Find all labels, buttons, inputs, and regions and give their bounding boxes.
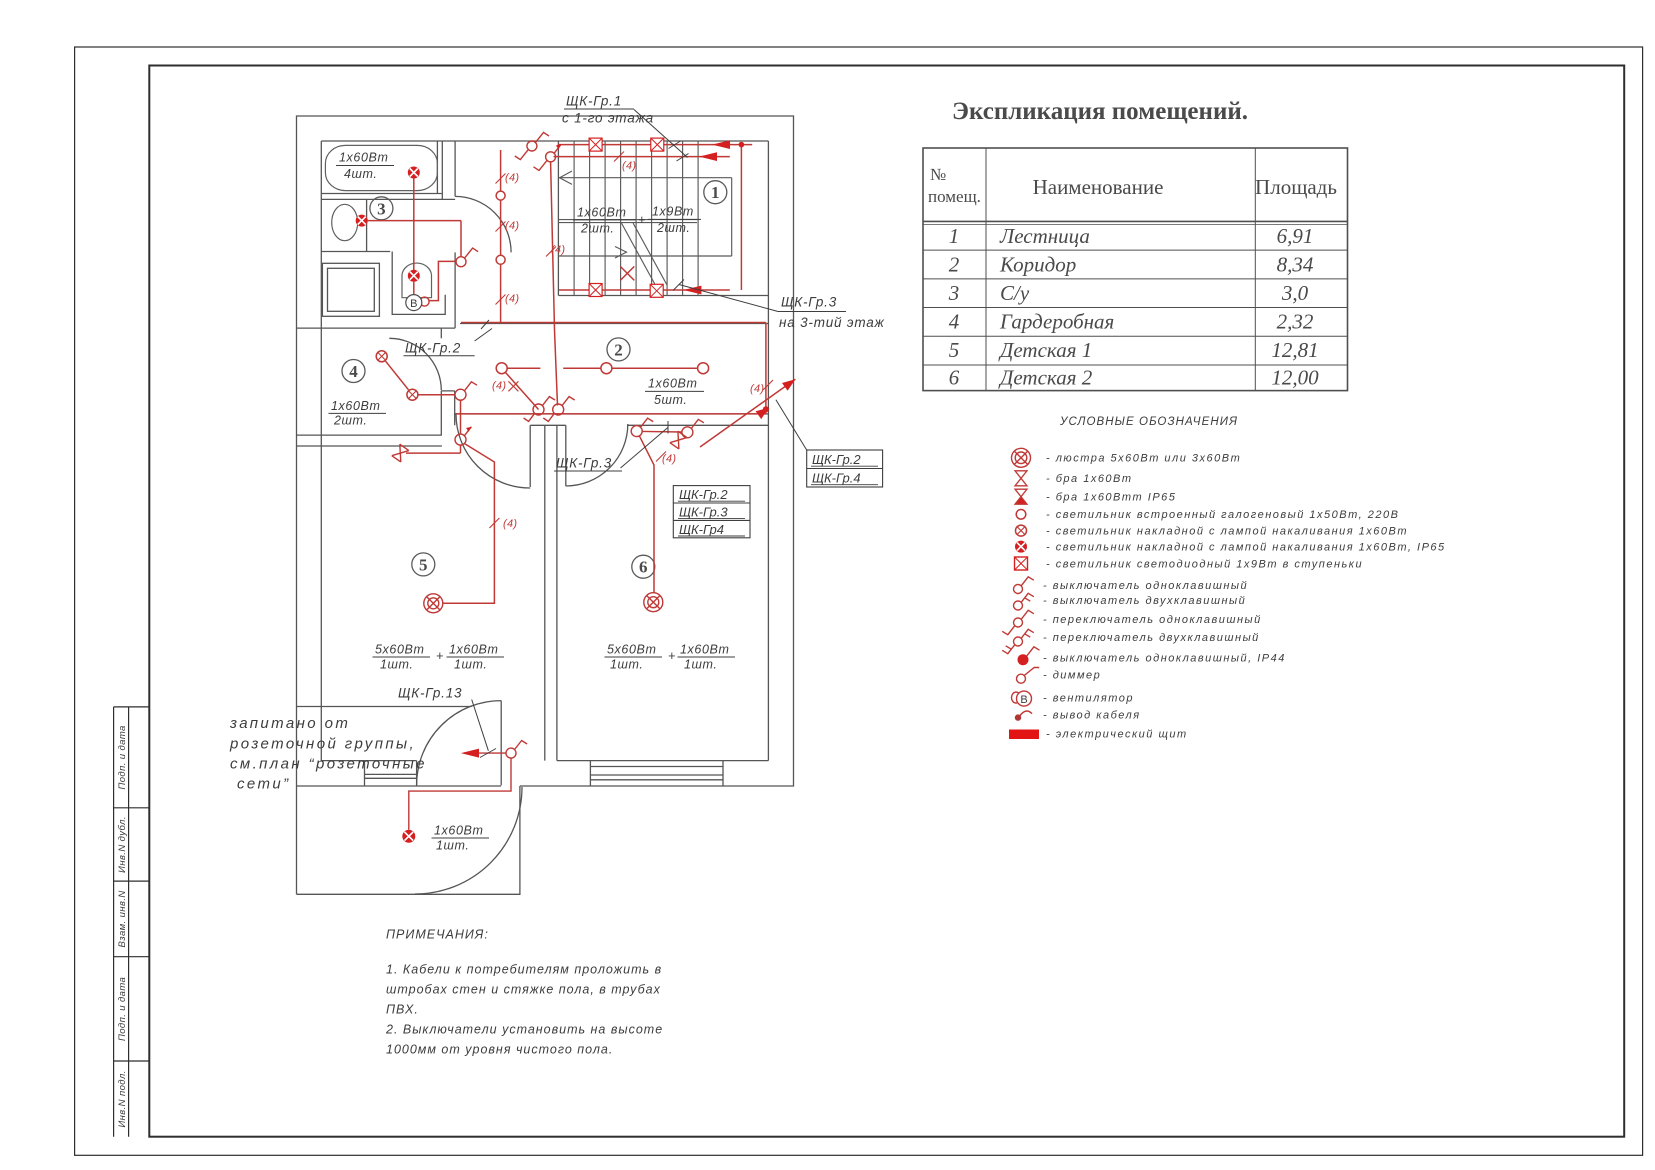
svg-text:Коридор: Коридор xyxy=(999,253,1076,277)
hallway left wall lower xyxy=(454,252,456,328)
stairwell left wall xyxy=(557,141,559,296)
red arrows on feed lines xyxy=(683,140,769,412)
red X on stair xyxy=(620,266,634,280)
svg-text:6: 6 xyxy=(639,558,648,577)
room6 wall sconce xyxy=(670,431,687,449)
svg-text:12,00: 12,00 xyxy=(1271,366,1319,390)
svg-text:- электрический щит: - электрический щит xyxy=(1046,729,1188,741)
wire corridor top xyxy=(461,322,766,324)
svg-text:2: 2 xyxy=(949,253,960,277)
svg-text:- выключатель одноклавишный: - выключатель одноклавишный xyxy=(1043,580,1248,592)
svg-text:+: + xyxy=(436,649,444,663)
svg-text:- выключатель одноклавишный,: - выключатель одноклавишный, IP44 xyxy=(1043,653,1286,665)
svg-text:ЩК-Гр.2: ЩК-Гр.2 xyxy=(812,452,861,467)
svg-text:Гардеробная: Гардеробная xyxy=(999,310,1114,334)
wire corridor bottom xyxy=(455,413,766,415)
fraction underlines xyxy=(329,166,736,839)
svg-text:- вывод кабеля: - вывод кабеля xyxy=(1043,710,1141,722)
bath IP65 lamps xyxy=(356,167,420,282)
svg-text:8,34: 8,34 xyxy=(1277,253,1314,277)
X tick on corridor diagonal xyxy=(508,381,518,391)
title block side strip xyxy=(114,707,150,1137)
svg-text:+: + xyxy=(668,649,676,663)
svg-text:(4): (4) xyxy=(662,453,676,465)
svg-text:розеточной группы,: розеточной группы, xyxy=(229,736,416,753)
svg-text:ПРИМЕЧАНИЯ:: ПРИМЕЧАНИЯ: xyxy=(386,928,489,942)
svg-text:Экспликация помещений.: Экспликация помещений. xyxy=(952,98,1248,125)
halogen downlights hallway xyxy=(496,191,505,264)
svg-text:Наименование: Наименование xyxy=(1033,175,1164,199)
room4 wall sconce xyxy=(392,444,409,462)
svg-text:- светильник накладной с ламп: - светильник накладной с лампой накалива… xyxy=(1046,526,1408,538)
sink oval xyxy=(332,204,358,240)
hall balcony lamp IP65 xyxy=(402,830,415,843)
balcony door leaf xyxy=(500,701,502,786)
svg-text:- вентилятор: - вентилятор xyxy=(1043,693,1134,705)
legend symbol changeover 2-key xyxy=(1002,629,1034,653)
svg-text:4: 4 xyxy=(949,310,960,334)
wc bottom wall xyxy=(321,251,390,253)
svg-text:- выключатель двухклавишный: - выключатель двухклавишный xyxy=(1043,595,1246,607)
svg-text:1х60Вт: 1х60Вт xyxy=(648,377,697,391)
svg-text:помещ.: помещ. xyxy=(928,187,981,206)
legend symbol dimmer xyxy=(1017,668,1040,684)
room4 bottom wall xyxy=(297,434,442,436)
svg-text:5х60Вт: 5х60Вт xyxy=(607,643,656,657)
balcony outline xyxy=(297,786,520,894)
svg-text:(4): (4) xyxy=(505,293,519,305)
svg-text:1х60Вт: 1х60Вт xyxy=(577,206,626,220)
label SCHK-Gr.1 xyxy=(562,94,654,126)
svg-text:(4): (4) xyxy=(505,220,519,232)
corridor top wall xyxy=(460,323,768,325)
svg-text:6,91: 6,91 xyxy=(1277,224,1314,248)
room6 window xyxy=(590,761,723,786)
svg-text:- бра 1х60Втm IP65: - бра 1х60Втm IP65 xyxy=(1046,492,1176,504)
wire stair right riser xyxy=(740,145,742,290)
svg-text:ПВХ.: ПВХ. xyxy=(386,1003,419,1017)
svg-text:с 1-го этажа: с 1-го этажа xyxy=(562,111,654,126)
svg-text:1000мм от уровня чистого пола.: 1000мм от уровня чистого пола. xyxy=(386,1043,613,1057)
svg-text:ЩК-Гр.1: ЩК-Гр.1 xyxy=(566,94,622,109)
wire hallway vertical xyxy=(500,150,502,323)
svg-text:1шт.: 1шт. xyxy=(436,839,469,853)
corridor bottom wall xyxy=(455,413,769,415)
svg-text:1шт.: 1шт. xyxy=(684,658,717,672)
bath circuit wires xyxy=(362,173,461,301)
svg-text:2,32: 2,32 xyxy=(1277,310,1314,334)
(4) wire tags xyxy=(492,160,764,530)
room4 lamps and wires xyxy=(386,361,495,603)
svg-text:1х60Вт: 1х60Вт xyxy=(339,151,388,165)
hallway left wall upper xyxy=(454,141,456,196)
svg-text:Инв.N дубл.: Инв.N дубл. xyxy=(117,816,128,873)
svg-text:1: 1 xyxy=(711,183,720,202)
wire feed run second xyxy=(554,156,730,158)
room6 switches on wall xyxy=(631,418,704,438)
room5 chandelier xyxy=(424,594,443,613)
svg-text:1х60Вт: 1х60Вт xyxy=(449,643,498,657)
red branch ticks xyxy=(489,152,773,529)
svg-text:2шт.: 2шт. xyxy=(333,414,367,428)
stairwell bottom wall xyxy=(558,295,768,297)
notes body xyxy=(385,963,663,1057)
svg-text:Детская 2: Детская 2 xyxy=(998,366,1093,390)
legend symbol surface lamp xyxy=(1016,525,1027,536)
svg-text:5: 5 xyxy=(949,338,960,362)
inner face left wall xyxy=(320,141,322,761)
lamp count labels xyxy=(331,151,729,853)
table header text xyxy=(928,165,1337,206)
svg-text:B: B xyxy=(410,298,417,310)
svg-text:- светильник светодиодный 1х9: - светильник светодиодный 1х9Вт в ступен… xyxy=(1046,559,1363,571)
fed from socket group note xyxy=(229,715,427,793)
svg-text:сети”: сети” xyxy=(237,776,291,793)
red wiring: stair top run 1 xyxy=(455,145,766,414)
bathtub xyxy=(325,145,437,190)
inner face right wall xyxy=(767,141,769,761)
svg-text:4: 4 xyxy=(349,362,358,381)
svg-text:B: B xyxy=(1020,694,1027,706)
legend symbol switch 1-key xyxy=(1014,577,1034,594)
svg-text:Подп. и дата: Подп. и дата xyxy=(117,977,128,1041)
svg-text:1. Кабели к потребителям проло: 1. Кабели к потребителям проложить в xyxy=(386,963,662,977)
svg-text:- светильник встроенный галог: - светильник встроенный галогеновый 1х50… xyxy=(1046,509,1399,521)
room6 bottom wall inner xyxy=(557,760,769,762)
svg-text:Детская 1: Детская 1 xyxy=(998,338,1092,362)
svg-text:2: 2 xyxy=(614,340,623,359)
legend text rows xyxy=(1043,453,1446,741)
wire hallway slant xyxy=(551,162,558,405)
svg-text:2шт.: 2шт. xyxy=(656,221,690,235)
balcony swing arc xyxy=(415,787,522,894)
svg-text:3: 3 xyxy=(948,281,960,305)
legend symbol changeover 1-key xyxy=(1002,610,1034,634)
side strip rotated labels xyxy=(117,725,128,1127)
room5 door arc xyxy=(456,414,530,488)
svg-text:Инв.N подл.: Инв.N подл. xyxy=(117,1070,128,1127)
svg-text:ЩК-Гр.2: ЩК-Гр.2 xyxy=(405,341,461,356)
room number circles xyxy=(342,181,727,579)
svg-text:С/у: С/у xyxy=(1000,281,1030,305)
wire feed run top xyxy=(558,144,753,146)
svg-text:- люстра 5х60Вт или 3х60Вт: - люстра 5х60Вт или 3х60Вт xyxy=(1046,453,1241,465)
balcony door arc small xyxy=(417,701,502,786)
wc switch xyxy=(456,248,478,267)
legend symbol electrical panel xyxy=(1009,730,1039,740)
svg-text:№: № xyxy=(930,165,946,184)
room6 chandelier xyxy=(644,593,663,612)
leader lines black xyxy=(472,110,807,758)
svg-text:ЩК-Гр.3: ЩК-Гр.3 xyxy=(679,504,728,519)
toilet xyxy=(402,263,432,298)
svg-text:штробах стен и стяжке пола, в: штробах стен и стяжке пола, в трубах xyxy=(386,983,661,997)
stair cut diagonals xyxy=(622,223,656,285)
wire corridor right xyxy=(765,323,767,414)
svg-text:(4): (4) xyxy=(505,172,519,184)
svg-text:1х60Вт: 1х60Вт xyxy=(680,643,729,657)
svg-text:- переключатель двухклавишный: - переключатель двухклавишный xyxy=(1043,632,1260,644)
legend symbol surface lamp IP65 xyxy=(1015,541,1027,553)
svg-text:ЩК-Гр.13: ЩК-Гр.13 xyxy=(398,686,462,701)
svg-text:2шт.: 2шт. xyxy=(580,222,614,236)
svg-text:6: 6 xyxy=(949,366,960,390)
legend symbol chandelier xyxy=(1012,448,1031,467)
LED step lights xyxy=(589,138,664,297)
fan xyxy=(406,295,429,311)
stair treads xyxy=(574,141,698,296)
corridor two-way switches xyxy=(524,397,575,422)
legend symbol cable outlet xyxy=(1015,711,1032,721)
svg-text:(4): (4) xyxy=(492,380,506,392)
room4 right wall xyxy=(441,391,454,435)
svg-text:Площадь: Площадь xyxy=(1255,175,1337,199)
svg-text:(4): (4) xyxy=(503,518,517,530)
table rows xyxy=(948,224,1319,390)
room5 door jamb xyxy=(529,425,531,487)
label SCHK-Gr.3 to 3rd floor xyxy=(779,295,885,331)
svg-text:4шт.: 4шт. xyxy=(344,167,377,181)
svg-text:5: 5 xyxy=(419,555,428,574)
floor plan walls xyxy=(297,116,794,894)
cable riser diagonal with arrows xyxy=(700,379,795,447)
storage cabinet box xyxy=(322,263,379,316)
svg-text:3: 3 xyxy=(377,199,386,218)
svg-text:на 3-тий этаж: на 3-тий этаж xyxy=(779,315,885,330)
room6 door arc xyxy=(566,424,628,486)
legend symbol sconce IP65 xyxy=(1015,489,1027,504)
room4 changeover switch xyxy=(455,427,471,445)
room6 door jamb xyxy=(565,425,567,486)
two-way switch 2 at stair top xyxy=(534,144,562,170)
svg-text:запитано от: запитано от xyxy=(229,715,350,732)
svg-text:(4): (4) xyxy=(622,160,636,172)
two-way switch at stair top left xyxy=(515,132,549,159)
hall top wall xyxy=(297,706,472,708)
svg-text:- переключатель одноклавишный: - переключатель одноклавишный xyxy=(1043,614,1262,626)
stair direction arrow xyxy=(560,171,572,184)
svg-text:5х60Вт: 5х60Вт xyxy=(375,643,424,657)
svg-text:1х60Вт: 1х60Вт xyxy=(331,399,380,413)
room4 switch xyxy=(455,382,477,400)
hall window xyxy=(365,761,417,786)
plan outer boundary xyxy=(297,116,794,894)
wc niche walls xyxy=(392,252,445,315)
bathroom right wall xyxy=(436,141,438,194)
svg-text:Подп. и дата: Подп. и дата xyxy=(117,725,128,789)
svg-text:Лестница: Лестница xyxy=(999,224,1090,248)
svg-text:1шт.: 1шт. xyxy=(380,658,413,672)
sink divider wall xyxy=(366,199,368,251)
svg-text:ЩК-Гр4: ЩК-Гр4 xyxy=(679,522,724,537)
svg-text:Взам. инв.N: Взам. инв.N xyxy=(117,890,128,947)
svg-text:- светильник накладной с ламп: - светильник накладной с лампой накалива… xyxy=(1046,542,1446,554)
svg-text:1х9Вт: 1х9Вт xyxy=(652,205,694,219)
inner face top wall xyxy=(321,140,768,142)
svg-text:12,81: 12,81 xyxy=(1271,338,1318,362)
svg-text:5шт.: 5шт. xyxy=(654,393,687,407)
svg-text:+: + xyxy=(638,213,646,227)
wire stair bottom run xyxy=(559,289,730,291)
svg-text:- диммер: - диммер xyxy=(1043,670,1101,682)
svg-text:ЩК-Гр.4: ЩК-Гр.4 xyxy=(812,471,861,486)
rooms5-6 divider wall xyxy=(544,425,546,760)
svg-text:2. Выключатели установить на в: 2. Выключатели установить на высоте xyxy=(385,1023,663,1037)
legend symbol sconce xyxy=(1015,471,1027,486)
svg-text:1шт.: 1шт. xyxy=(454,658,487,672)
stair landing lines xyxy=(559,171,732,285)
room4 right wall upper stub xyxy=(441,328,454,338)
room4 door arc xyxy=(389,338,441,390)
legend symbol halogen xyxy=(1016,510,1026,520)
svg-text:(4): (4) xyxy=(750,383,764,395)
legend symbol switch IP44 xyxy=(1018,647,1040,665)
svg-text:см.план “розеточные: см.план “розеточные xyxy=(230,756,427,773)
svg-text:ЩК-Гр.3: ЩК-Гр.3 xyxy=(556,456,612,471)
svg-text:1: 1 xyxy=(949,224,960,248)
mid arrow xyxy=(615,247,627,259)
bathroom bottom wall xyxy=(321,193,441,195)
boxed label SCHK-Gr.2/3/4 room6 xyxy=(673,486,750,538)
explication table grid xyxy=(923,148,1348,391)
svg-text:ЩК-Гр.2: ЩК-Гр.2 xyxy=(679,487,728,502)
wc door arc xyxy=(455,196,511,252)
storage wall xyxy=(297,327,456,329)
hall switch and feed arrow xyxy=(409,741,527,830)
boxed label SCHK-Gr.2/4 xyxy=(807,450,883,487)
svg-text:1х60Вт: 1х60Вт xyxy=(434,824,483,838)
svg-text:(4): (4) xyxy=(551,244,565,256)
corridor light row xyxy=(502,368,700,409)
svg-text:3,0: 3,0 xyxy=(1281,281,1309,305)
legend symbol switch 2-key xyxy=(1014,593,1034,610)
svg-text:- бра 1х60Вт: - бра 1х60Вт xyxy=(1046,473,1133,485)
svg-text:ЩК-Гр.3: ЩК-Гр.3 xyxy=(781,295,837,310)
hall bottom wall inner xyxy=(321,760,416,762)
legend symbol fan xyxy=(1012,691,1032,706)
legend symbol LED step light xyxy=(1015,557,1028,570)
svg-text:1шт.: 1шт. xyxy=(610,658,643,672)
svg-text:УСЛОВНЫЕ ОБОЗНАЧЕНИЯ: УСЛОВНЫЕ ОБОЗНАЧЕНИЯ xyxy=(1059,416,1238,428)
room6 chandelier drop wire xyxy=(639,436,654,603)
